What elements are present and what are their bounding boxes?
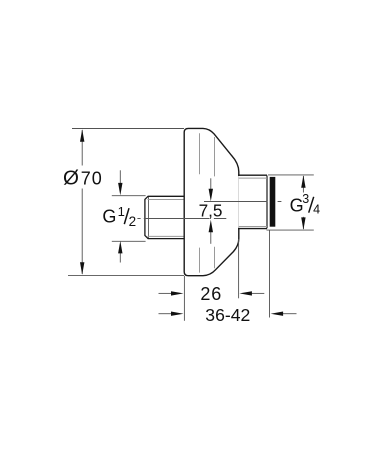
svg-text:26: 26 xyxy=(200,284,222,304)
svg-text:Ø70: Ø70 xyxy=(63,167,103,190)
svg-text:7,5: 7,5 xyxy=(199,200,223,220)
svg-text:36-42: 36-42 xyxy=(205,305,250,325)
svg-text:3: 3 xyxy=(302,192,309,206)
svg-text:G: G xyxy=(102,207,116,227)
svg-text:1: 1 xyxy=(118,204,125,219)
svg-text:2: 2 xyxy=(129,214,137,229)
svg-text:4: 4 xyxy=(313,202,320,216)
